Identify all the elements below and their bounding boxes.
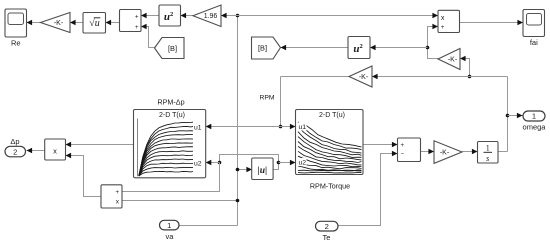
wire product P1 to scope fai bbox=[460, 22, 524, 24]
wire to omega outport bbox=[508, 115, 523, 117]
arrow into scope Re bbox=[27, 20, 33, 25]
junction u2 node left bbox=[218, 161, 222, 165]
gain G1 -K- bbox=[41, 13, 71, 33]
svg-text:2: 2 bbox=[13, 147, 17, 156]
svg-text:1.96: 1.96 bbox=[204, 13, 218, 20]
svg-text:-K-: -K- bbox=[359, 74, 369, 81]
wire gain G3 to RPM vertical bbox=[281, 76, 350, 78]
wire RPM vertical x=280.5 bbox=[280, 77, 282, 127]
arrow into LT2 u2 bbox=[290, 160, 296, 165]
svg-text:Re: Re bbox=[11, 39, 21, 48]
arrow into sqrt block bbox=[106, 20, 112, 25]
wire table LT2 output to sum S2 plus bbox=[363, 144, 398, 146]
wire from tag B1 to sum S1 port 2 bbox=[141, 27, 155, 48]
svg-text:+: + bbox=[135, 25, 139, 31]
square U1 u^2 bbox=[159, 5, 181, 26]
svg-text:|u|: |u| bbox=[258, 166, 267, 176]
arrow into integrator bbox=[472, 149, 478, 154]
svg-text:RPM-Δp: RPM-Δp bbox=[157, 98, 184, 107]
wire va bus to block A2 port 2 bbox=[122, 200, 238, 202]
svg-text:−: − bbox=[401, 152, 405, 158]
arrow into sum S2 minus bbox=[392, 151, 398, 156]
svg-text:u1: u1 bbox=[299, 124, 307, 131]
wire to square U2 bbox=[370, 47, 428, 49]
svg-text:omega: omega bbox=[523, 123, 547, 132]
gain G5 -K- bbox=[434, 141, 462, 164]
svg-text:-K-: -K- bbox=[440, 150, 450, 157]
arrow into LT1 u2 bbox=[206, 160, 212, 165]
svg-text:2-D T(u): 2-D T(u) bbox=[319, 112, 345, 119]
wire va vertical bus x=237.5 bbox=[237, 16, 239, 226]
svg-text:-K-: -K- bbox=[448, 57, 458, 64]
outport omega bbox=[523, 111, 547, 132]
scope fai bbox=[523, 10, 545, 48]
svg-text:Δp: Δp bbox=[10, 137, 19, 146]
arrow into scope fai bbox=[517, 20, 523, 25]
svg-text:fai: fai bbox=[530, 38, 538, 47]
arrow into block A2 port 1 bbox=[116, 189, 122, 194]
arrow into LT2 u1 bbox=[290, 124, 296, 129]
junction omega feedback split bbox=[468, 75, 472, 79]
gain G3 -K- bbox=[349, 66, 372, 87]
table LT1 RPM-dp bbox=[134, 98, 206, 178]
arrow into sum S1 port 1 bbox=[141, 13, 147, 18]
svg-text:+: + bbox=[441, 25, 445, 31]
wire RPM to table LT2 u1 bbox=[281, 126, 296, 128]
wire sqrt to gain G1 bbox=[70, 22, 83, 24]
arrow into product M1 port 2 bbox=[66, 153, 72, 158]
wire va source to vertical bus bbox=[179, 225, 238, 227]
arrow into block A2 port 2 bbox=[116, 198, 122, 203]
arrow into gain G4 bbox=[460, 56, 466, 61]
svg-text:√u: √u bbox=[89, 18, 100, 29]
arrow into sum S1 port 2 bbox=[141, 24, 147, 29]
svg-text:x: x bbox=[441, 15, 445, 22]
arrow into LT1 u1 bbox=[206, 124, 212, 129]
junction va/abs bbox=[236, 168, 240, 172]
svg-text:RPM: RPM bbox=[259, 95, 274, 102]
svg-text:u1: u1 bbox=[194, 124, 202, 131]
svg-text:[B]: [B] bbox=[168, 44, 177, 53]
wire Te inport to sum S2 minus bbox=[338, 154, 398, 226]
product M1 (x) bbox=[45, 139, 66, 160]
arrow into sum S2 plus bbox=[392, 142, 398, 147]
junction va/A2 bbox=[236, 199, 240, 203]
arrow into omega outport bbox=[517, 113, 523, 118]
wire gain G5 to integrator bbox=[462, 151, 478, 153]
gain G4 -K- bbox=[438, 49, 460, 70]
wire abs output loop up bbox=[220, 155, 279, 170]
wire abs node to LT2 u2 bbox=[279, 162, 296, 164]
wire sum S1 to sqrt block bbox=[106, 22, 120, 24]
svg-text:+: + bbox=[115, 190, 119, 196]
svg-text:2: 2 bbox=[325, 222, 329, 231]
inport Te bbox=[316, 221, 339, 242]
junction RPM split u1 bbox=[279, 125, 283, 129]
sum S2 (+ -) bbox=[398, 138, 421, 162]
wire square U2 to goto tag B2 bbox=[281, 47, 349, 49]
scope Re bbox=[5, 9, 27, 48]
arrow into gain G3 bbox=[372, 74, 378, 79]
svg-text:[B]: [B] bbox=[258, 43, 267, 52]
wire RPM to table LT1 u1 bbox=[206, 126, 281, 128]
junction va/top row bbox=[236, 14, 240, 18]
arrow into gain G1 bbox=[70, 20, 76, 25]
svg-text:s: s bbox=[486, 154, 489, 163]
arrow into product M1 port 1 bbox=[66, 142, 72, 147]
svg-text:2-D T(u): 2-D T(u) bbox=[159, 112, 185, 119]
wire integrator to omega bus bbox=[498, 151, 508, 153]
arrow into abs block bbox=[246, 167, 252, 172]
junction abs output node bbox=[277, 161, 281, 165]
goto tag B2 bbox=[252, 37, 281, 59]
block A2 (+ x) bbox=[101, 185, 122, 208]
wire omega feedback horizontal y=76.5 bbox=[372, 76, 508, 78]
inport va bbox=[160, 220, 180, 241]
svg-text:Te: Te bbox=[323, 233, 331, 242]
wire top row y=16 (va to gain 1.96 and product P1) bbox=[221, 15, 438, 17]
wire product M1 to outport dp bbox=[27, 150, 46, 152]
svg-text:1: 1 bbox=[532, 112, 536, 121]
svg-text:+: + bbox=[401, 143, 405, 149]
sum S1 bbox=[120, 10, 142, 32]
node label RPM bbox=[259, 95, 274, 102]
square U2 u^2 bbox=[348, 37, 370, 59]
outport dp bbox=[5, 137, 26, 157]
svg-text:1: 1 bbox=[167, 221, 171, 230]
gain G2 1.96 bbox=[193, 5, 221, 27]
wire gain G4 output up to product P1 port 2 bbox=[428, 27, 439, 59]
junction omega outport branch bbox=[506, 114, 510, 118]
wire gain G1 to scope Re bbox=[27, 22, 41, 24]
table LT2 RPM-Torque bbox=[296, 110, 364, 191]
from tag B1 bbox=[155, 38, 185, 59]
svg-text:va: va bbox=[166, 232, 175, 241]
wire square U1 to sum S1 port 1 bbox=[141, 15, 159, 17]
svg-text:u2: u2 bbox=[194, 161, 202, 168]
wire gain 1.96 to square U1 bbox=[181, 15, 194, 17]
arrow into outport dp bbox=[27, 148, 33, 153]
wire to LT1 u2 bbox=[206, 162, 220, 164]
svg-text:u2: u2 bbox=[299, 160, 307, 167]
svg-text:1: 1 bbox=[486, 144, 490, 153]
wire table LT1 output to product M1 port 1 bbox=[66, 144, 134, 146]
wire va to abs block bbox=[238, 169, 253, 171]
svg-text:-K-: -K- bbox=[54, 20, 64, 27]
arrow into square U2 bbox=[370, 45, 376, 50]
arrow into square U1 bbox=[181, 13, 187, 18]
arrow into gain G5 bbox=[428, 149, 434, 154]
arrow into product P1 port 1 bbox=[432, 13, 438, 18]
product P1 (x over +) bbox=[438, 10, 460, 32]
junction G4 output / square U2 branch bbox=[426, 46, 430, 50]
wire u2 node down to block A2 port 1 bbox=[122, 163, 220, 192]
svg-text:+: + bbox=[135, 14, 139, 20]
svg-text:x: x bbox=[53, 147, 57, 156]
svg-text:RPM-Torque: RPM-Torque bbox=[310, 182, 350, 191]
wire block A2 output to product M1 port 2 bbox=[66, 156, 102, 197]
integrator 1/s bbox=[478, 142, 499, 164]
wire omega vertical x=507.5 bbox=[507, 77, 509, 152]
wire sum S2 to gain G5 bbox=[421, 151, 435, 153]
wire omega feedback into gain G4 bbox=[460, 59, 470, 77]
sqrt block bbox=[83, 13, 106, 34]
abs block |u| bbox=[252, 158, 273, 180]
arrow into product P1 port 2 bbox=[432, 24, 438, 29]
arrow into goto tag B2 bbox=[281, 45, 287, 50]
arrow into gain 1.96 bbox=[221, 13, 227, 18]
